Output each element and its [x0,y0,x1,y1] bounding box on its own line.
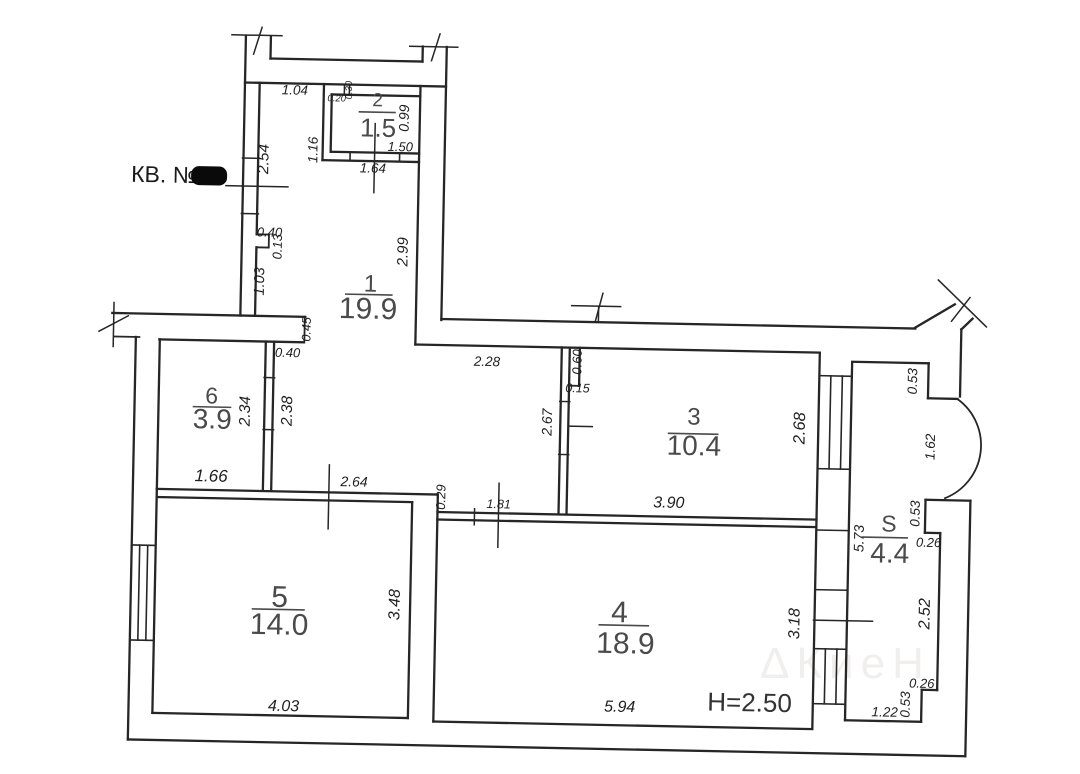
svg-text:18.9: 18.9 [596,627,655,661]
wall: room 3 left wall right face upper [568,348,571,386]
svg-text:10.4: 10.4 [666,430,721,462]
wall: room 3 left wall right face [567,386,570,513]
svg-text:2.64: 2.64 [339,473,368,490]
svg-text:0.53: 0.53 [905,368,921,395]
room label: 5 fraction bar [252,609,304,610]
svg-text:3: 3 [687,404,701,431]
window: room 5 window pane line 2 [146,545,148,640]
svg-text:3.90: 3.90 [653,494,685,512]
wall: bottom exterior wall [128,739,966,756]
dimension tick: left wall upper (2.54) [242,157,259,159]
wall: right outer wall upper segment [960,329,961,396]
break mark: top-right X long diagonal [937,280,987,327]
dimension line: 1.81 witness [498,483,499,547]
wall: balcony door top jamb [928,397,958,400]
wall: balcony inner step upper (0.26) [925,532,940,535]
svg-text:2.54: 2.54 [255,143,273,175]
svg-text:2.28: 2.28 [473,354,501,370]
wall: room 2 top tick (0.30) [343,86,345,95]
window: room 4 window pane 2 [836,649,837,704]
wall: right exterior wall lower segment [965,501,970,757]
wall: room 6 right wall left face [263,342,266,491]
wall: room 2 door sill left [349,152,351,161]
wall: room 2 interior top [332,94,421,96]
dimension tick: window wall mid 1 [816,529,849,532]
wall: left corridor wall inner face upper [257,83,260,235]
window: room 3 window top cap [819,375,852,378]
wall: room 5 right wall [408,502,412,718]
wall: balcony door top step (0.53) [927,363,930,398]
wall: room 2 bottom outer [322,160,419,162]
break mark: top-left tick [232,35,282,36]
leader line: KV number [226,186,288,187]
wall: left corridor wall outer face [240,36,246,316]
svg-text:0.15: 0.15 [565,381,590,395]
svg-text:КВ. №: КВ. № [131,161,198,188]
svg-text:2.67: 2.67 [539,407,556,437]
svg-text:0.53: 0.53 [907,500,923,527]
svg-text:1.66: 1.66 [194,466,228,486]
svg-text:4.4: 4.4 [870,537,910,569]
dimension tick: room 6 wall upper (2.34/2.38) [264,377,275,379]
wall: balcony bottom wall (1.22) [845,720,921,722]
window: room 5 window bottom cap [130,639,154,641]
room label: 6 fraction bar [194,406,231,409]
svg-text:2.34: 2.34 [237,396,255,428]
dimension tick: room 3 wall upper [560,400,570,402]
dimension tick: room 3 wall lower [559,453,569,455]
svg-text:0.29: 0.29 [433,484,449,510]
dimension line: 2.67 pointer [568,425,592,427]
wall: room 6 top wall lower face [159,339,303,342]
window: room 5 window pane line 1 [138,545,140,640]
room label: 3 fraction bar [669,432,718,435]
wall: room 6 top wall upper face [112,313,305,317]
svg-text:0.26: 0.26 [909,676,935,692]
wall: outer wall diagonal from break [961,318,972,329]
wall: window wall right face [845,362,852,720]
svg-text:2.68: 2.68 [790,411,809,445]
svg-text:1.16: 1.16 [305,136,321,163]
wall: room 3 niche right face (0.60) [578,348,581,386]
wall: balcony inner wall lower (0.53) [920,690,923,722]
window: room 4 window pane 1 [824,649,825,704]
break mark: top band tick [572,305,621,308]
break mark: top-left slash [254,27,263,54]
svg-text:0.45: 0.45 [299,317,313,342]
svg-text:0.60: 0.60 [569,348,585,374]
svg-text:14.0: 14.0 [250,608,309,642]
wall: top wall jog at right [421,47,424,62]
room label: 4 fraction bar [599,624,648,627]
wall: left corridor wall step top (0.40 niche) [257,233,269,235]
svg-text:2: 2 [372,90,383,111]
wall: room 6 top wall right cap (0.45) [303,317,306,343]
wall: top wall outer face / room 1 top [245,83,446,87]
wall: corridor right wall inner face [415,86,420,345]
break mark: top-right tick [410,45,458,48]
window: room 4 window bottom cap [813,703,846,706]
wall: room 3 niche bottom (0.15) [569,385,579,387]
svg-text:5.94: 5.94 [604,698,636,716]
wall: room 2 door sill right [398,153,400,162]
svg-text:1.62: 1.62 [923,433,939,460]
dimension tick: window wall mid 2 [815,589,848,592]
wall: left building outer wall top tick [115,336,139,338]
svg-text:0.99: 0.99 [396,104,413,132]
wall: east wing top wall upper face [441,319,915,328]
dimension line: 1.64 witness [374,124,375,193]
svg-text:0.30: 0.30 [344,80,355,99]
svg-text:19.9: 19.9 [339,292,398,326]
redaction blob: apartment number [191,166,227,186]
break mark: left wall tick [112,302,115,346]
wall: room 3 left wall left face [559,347,562,512]
svg-text:1.81: 1.81 [486,497,511,511]
dimension tick: room 4 top wall small [473,509,475,525]
wall: room 3-4 wall upper face [437,512,816,520]
svg-text:0.53: 0.53 [898,691,914,718]
break mark: top band connector [597,306,599,322]
wall: room 5 bottom interior [152,713,407,718]
wall: window wall left face [812,353,820,728]
svg-text:0.26: 0.26 [916,535,942,551]
break mark: top band slash [595,293,603,321]
wall: top wall diagonal to break [915,304,954,329]
wall: left exterior wall inner face [152,339,159,712]
svg-text:0.40: 0.40 [275,345,301,361]
svg-text:3.9: 3.9 [192,403,232,435]
svg-text:1.64: 1.64 [360,160,387,176]
svg-text:2.38: 2.38 [279,395,297,427]
wall: balcony inner wall upper (0.53) [924,500,927,533]
svg-text:3.48: 3.48 [386,589,404,621]
wall: balcony door bottom jamb [926,499,971,502]
wall: balcony inner wall mid (2.52) [937,533,940,690]
window: room 3 window pane 2 [841,376,843,469]
wall: east wing top wall lower face / room 3 top [415,345,820,353]
break mark: top-right slash [432,34,441,61]
svg-text:H=2.50: H=2.50 [707,687,792,719]
svg-text:1.04: 1.04 [282,82,309,98]
wall: room 6 right wall right face [271,342,274,491]
wall: balcony inner step lower (0.26) [922,689,937,692]
wall: balcony top wall [852,362,929,364]
break mark: left wall slash [99,315,128,332]
svg-text:0.13: 0.13 [269,233,285,259]
dimension line: 3.18 pointer [813,620,872,621]
dimension tick: room 6 wall lower [263,429,274,431]
break mark: top-right X short diagonal [952,297,970,321]
wall: room 2 top tick b [348,86,350,95]
wall: left corridor wall inner face lower (1.03) [255,247,256,316]
svg-text:2.99: 2.99 [394,236,412,267]
door arc: balcony door swing (1.62) [945,399,982,499]
svg-text:4.03: 4.03 [268,698,300,716]
wall: room 4 bottom interior [433,722,812,730]
wall: room 2 left wall inner [331,94,332,151]
wall: room 2 interior bottom [331,152,420,154]
window: room 3 window bottom cap [818,468,851,471]
room label: 1 fraction bar [346,293,392,296]
dimension line: 2.64 witness [328,465,329,529]
wall: left exterior wall outer face [128,337,136,740]
svg-text:2.52: 2.52 [916,598,934,631]
wall: top wall inner face [270,59,422,62]
wall: hall bottom wall lower face / room 5 top [157,497,413,502]
wall: top-left neighbour wall stub inner [269,37,272,59]
wall: room 4 left wall [433,495,438,722]
room label: S fraction bar [862,536,907,539]
svg-text:1.03: 1.03 [252,267,269,296]
svg-text:S: S [881,510,897,536]
wall: left corridor wall step bottom [256,246,268,248]
wall: hall bottom wall upper face [157,489,438,495]
dimension tick: left wall lower [241,213,258,215]
svg-text:5.73: 5.73 [850,524,867,552]
wall: left corridor wall step right (0.13) [268,235,270,248]
room label: 2 fraction bar [359,111,395,114]
wall: corridor right wall outer face (2.99) [441,47,446,320]
svg-text:1.50: 1.50 [387,139,413,155]
wall: room 2 left wall outer [322,84,324,160]
svg-text:3.18: 3.18 [786,608,804,640]
window: room 5 window top cap [132,544,156,546]
svg-text:1.22: 1.22 [871,704,898,720]
window: room 4 window top cap [814,648,847,651]
window: room 3 window pane 1 [829,376,831,469]
wall: room 3-4 wall lower face [437,520,816,528]
